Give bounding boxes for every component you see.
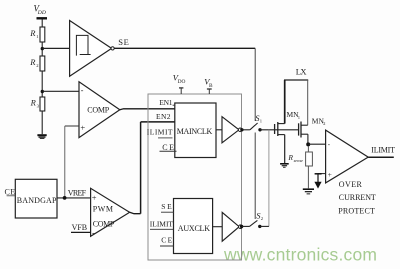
- wire VFB into U3 minus: [71, 231, 91, 233]
- power tap VDO: [179, 88, 183, 94]
- op-amp U6 over current protect: [326, 130, 369, 183]
- node switch S2 pivot: [258, 225, 261, 228]
- label MN1: [287, 110, 301, 120]
- transistor MN1: [275, 122, 285, 136]
- op-amp U3 PWM COMP: [91, 188, 130, 236]
- wire junction to COMP minus input: [42, 90, 79, 92]
- svg-text:R: R: [287, 153, 293, 162]
- svg-text:SE: SE: [118, 37, 129, 47]
- node at U1 output apex: [111, 47, 114, 50]
- wire AUXCLK output to inverter: [213, 226, 223, 228]
- ground below Rsense: [303, 188, 314, 194]
- svg-text:OVER: OVER: [339, 180, 363, 189]
- op-amp U2 COMP comparator: [79, 82, 120, 138]
- wire MN2 drain: [307, 80, 309, 125]
- bubble of U5: [239, 225, 243, 229]
- inverter U4 after MAINCLK: [222, 117, 239, 143]
- svg-text:+: +: [328, 170, 332, 179]
- svg-text:CURRENT: CURRENT: [339, 193, 376, 202]
- wire R2 to R3: [41, 71, 43, 97]
- wire under CE (auxclk): [160, 245, 174, 247]
- svg-text:LX: LX: [296, 66, 307, 76]
- block MAINCLK: [175, 103, 216, 158]
- inverter U5 after AUXCLK: [222, 212, 239, 241]
- wire riser VREF to COMP plus: [64, 126, 66, 198]
- wire EN1 tick: [173, 104, 176, 106]
- svg-text:DD: DD: [37, 10, 46, 16]
- switch S2 blade: [250, 220, 258, 226]
- svg-text:CE: CE: [161, 236, 172, 245]
- wire sense node to OCP minus input: [308, 143, 325, 145]
- wire COMP output to MAINCLK EN1: [120, 108, 176, 111]
- block AUXCLK: [174, 199, 213, 254]
- wire under SE: [161, 211, 174, 213]
- wire EN2 input: [141, 121, 176, 123]
- node VDO label: [173, 73, 186, 85]
- wire SE vertical lower segment: [254, 133, 256, 220]
- node junction U5 output on box edge: [240, 225, 243, 228]
- wire R3 to ground: [41, 111, 43, 134]
- wire ILIMIT output: [368, 156, 394, 158]
- wire riser S2 output to gate line: [268, 130, 270, 227]
- node VDD label: [34, 4, 46, 16]
- power rail VDD bar: [37, 17, 48, 19]
- transistor MN2: [299, 122, 308, 138]
- ground below R3: [37, 134, 46, 139]
- svg-text:EN1: EN1: [159, 98, 172, 107]
- node junction R1/R2: [41, 47, 44, 50]
- svg-text:+: +: [92, 193, 97, 203]
- wire under ILIMIT (auxclk): [150, 228, 174, 230]
- svg-text:ILIMIT: ILIMIT: [371, 145, 395, 154]
- wire Rsense to ground: [307, 166, 309, 188]
- wire sense node to Rsense: [307, 146, 309, 152]
- svg-text:PWM: PWM: [93, 205, 113, 214]
- svg-text:R: R: [29, 28, 36, 38]
- resistor R2: [40, 56, 45, 71]
- svg-text:CE: CE: [5, 187, 16, 196]
- svg-text:MAINCLK: MAINCLK: [177, 127, 213, 136]
- svg-text:CE: CE: [162, 143, 174, 152]
- node junction R2/R3: [41, 90, 44, 93]
- svg-text:AUXCLK: AUXCLK: [178, 224, 210, 233]
- switch S1 blade: [250, 123, 258, 130]
- wire SE horizontal: [114, 47, 255, 49]
- wire COMP plus input: [65, 125, 79, 127]
- wire VDD to R1: [41, 20, 43, 28]
- label S2: [256, 210, 264, 221]
- node switch S1 pivot: [258, 128, 261, 131]
- svg-text:SE: SE: [161, 202, 172, 211]
- wire riser PWM output to EN2: [140, 122, 142, 214]
- resistor R1: [40, 27, 45, 42]
- outer control box: [148, 94, 242, 260]
- wire BANDGAP output VREF: [57, 197, 91, 199]
- op-amp U1 schmitt trigger: [70, 21, 112, 77]
- wire LX rail: [284, 79, 308, 81]
- svg-text:B: B: [209, 83, 213, 89]
- wire under ILIMIT: [158, 137, 173, 139]
- power tap VB: [207, 89, 212, 94]
- wire OCP plus input: [318, 173, 326, 175]
- node VB label: [204, 77, 213, 89]
- label S1: [255, 113, 262, 124]
- svg-text:sense: sense: [294, 158, 304, 163]
- resistor R3: [40, 97, 45, 111]
- svg-text:R: R: [29, 57, 36, 67]
- svg-text:www.cntronics.com: www.cntronics.com: [223, 245, 377, 265]
- wire MN2 source to sense node: [307, 134, 309, 144]
- svg-text:R: R: [30, 98, 37, 108]
- svg-text:COMP: COMP: [87, 106, 109, 115]
- hysteresis symbol inside U1: [76, 35, 90, 55]
- svg-text:VFB: VFB: [72, 223, 88, 232]
- svg-text:EN2: EN2: [156, 112, 171, 121]
- ground below MN1: [280, 163, 289, 168]
- label Rsense: [287, 153, 303, 163]
- ground at OCP plus input: [314, 174, 321, 189]
- svg-text:DO: DO: [178, 79, 186, 85]
- svg-text:ILIMIT: ILIMIT: [147, 127, 173, 136]
- wire S2 output to riser: [260, 225, 269, 227]
- svg-text:+: +: [80, 123, 85, 133]
- node sense junction: [306, 142, 310, 146]
- resistor Rsense: [306, 152, 313, 166]
- label R1: [29, 28, 39, 39]
- wire U3 output to riser: [130, 212, 141, 213]
- wire R1 to R2: [41, 42, 43, 56]
- label R2: [29, 57, 39, 68]
- wire under CE: [160, 150, 177, 152]
- node junction U4 output on box edge: [240, 128, 243, 131]
- wire MN1 source to ground: [284, 135, 286, 163]
- bubble of U4: [238, 128, 242, 132]
- svg-text:COMP: COMP: [93, 220, 115, 229]
- label MN2: [312, 116, 326, 126]
- wire under CE: [7, 195, 16, 197]
- wire junction to schmitt input: [42, 47, 69, 49]
- wire to switch S1: [242, 129, 250, 131]
- svg-text:ILIMIT: ILIMIT: [150, 220, 174, 229]
- svg-text:VREF: VREF: [68, 188, 87, 197]
- svg-text:-: -: [81, 86, 84, 95]
- svg-text:BANDGAP: BANDGAP: [17, 196, 57, 205]
- wire gate line S1 to MN gates: [260, 129, 299, 131]
- wire SE vertical upper segment: [254, 48, 256, 121]
- label R3: [30, 98, 40, 109]
- wire to switch S2: [242, 225, 250, 227]
- block BANDGAP: [15, 179, 57, 218]
- svg-text:-: -: [92, 228, 95, 237]
- node VREF junction: [63, 196, 67, 200]
- wire MAINCLK output to inverter: [216, 129, 222, 131]
- wire MN1 drain: [284, 80, 286, 124]
- svg-text:PROTECT: PROTECT: [338, 207, 375, 216]
